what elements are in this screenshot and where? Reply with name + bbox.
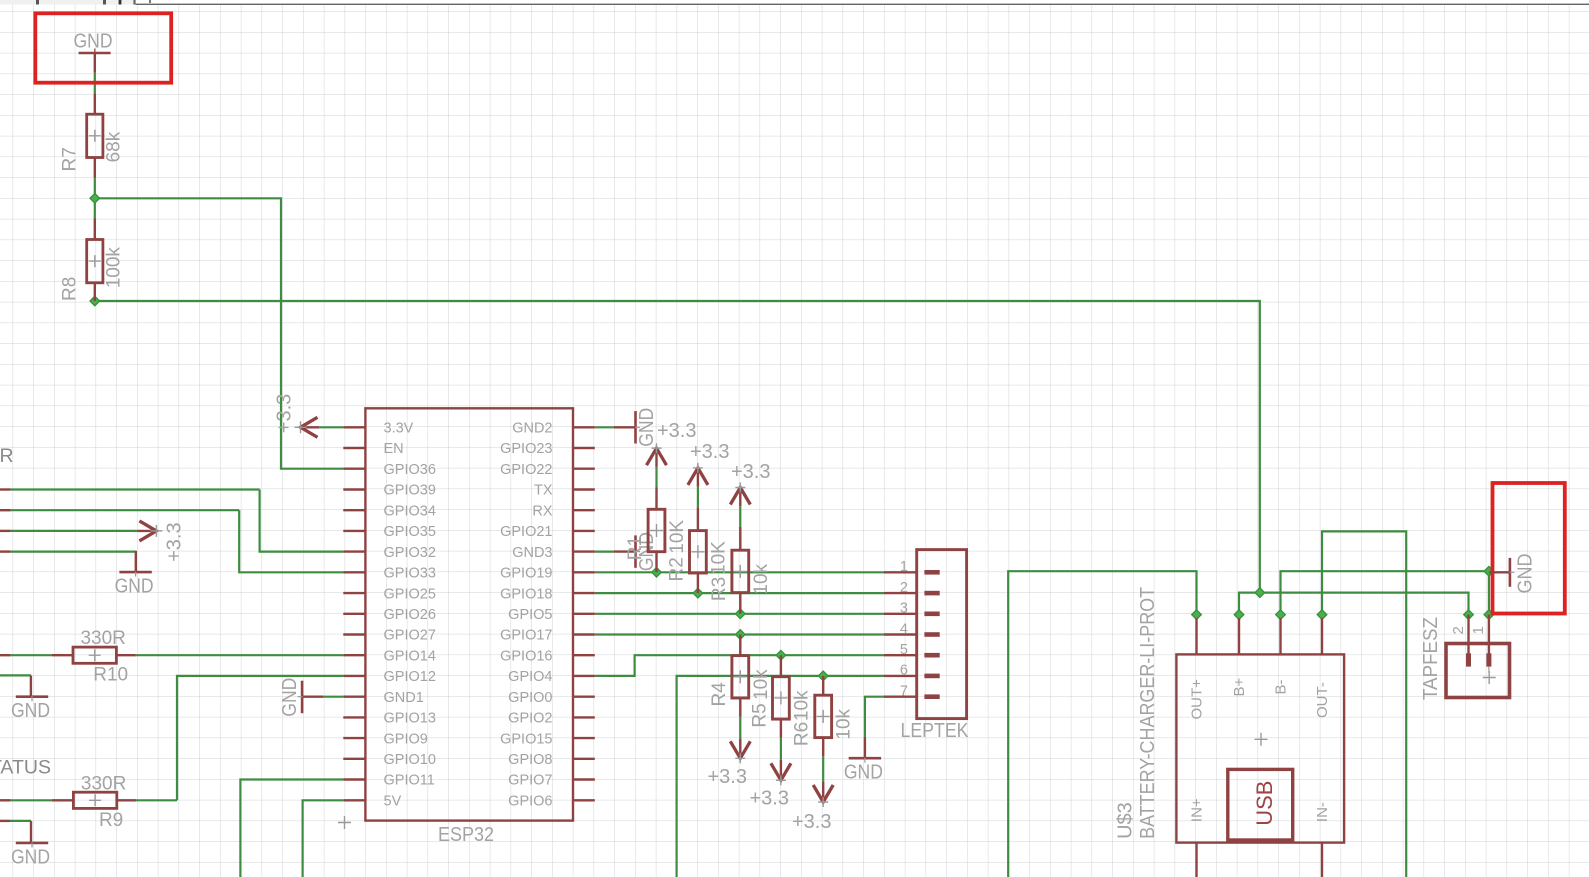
svg-text:OUT+: OUT+ — [1189, 679, 1206, 720]
svg-text:ER: ER — [0, 445, 14, 467]
svg-text:GPIO35: GPIO35 — [384, 524, 436, 540]
svg-text:3: 3 — [900, 601, 908, 617]
svg-text:TX: TX — [534, 483, 553, 499]
svg-text:330R: 330R — [80, 628, 125, 649]
svg-text:1: 1 — [900, 559, 908, 575]
svg-text:330R: 330R — [81, 773, 126, 794]
svg-text:TATUS: TATUS — [0, 756, 51, 778]
svg-text:GPIO27: GPIO27 — [384, 628, 436, 644]
svg-text:EN: EN — [384, 441, 404, 457]
svg-text:GPIO8: GPIO8 — [508, 752, 552, 768]
svg-text:GPIO32: GPIO32 — [384, 545, 436, 561]
svg-text:GPIO21: GPIO21 — [500, 524, 552, 540]
svg-text:IN-: IN- — [1314, 802, 1331, 822]
svg-text:GPIO9: GPIO9 — [384, 731, 428, 747]
svg-text:R3: R3 — [709, 577, 730, 601]
svg-text:GPIO6: GPIO6 — [508, 794, 552, 810]
svg-text:GPIO23: GPIO23 — [500, 441, 552, 457]
svg-text:OUT-: OUT- — [1314, 682, 1331, 718]
svg-text:GPIO25: GPIO25 — [384, 586, 436, 602]
svg-text:IN+: IN+ — [1189, 798, 1206, 822]
svg-text:R9: R9 — [99, 810, 123, 831]
svg-text:U$3: U$3 — [1115, 802, 1137, 839]
svg-text:100k: 100k — [104, 247, 125, 289]
svg-text:+3.3: +3.3 — [792, 811, 831, 833]
svg-text:GPIO36: GPIO36 — [384, 462, 436, 478]
svg-text:B+: B+ — [1231, 677, 1248, 696]
svg-text:10k: 10k — [834, 708, 855, 739]
svg-text:GPIO13: GPIO13 — [384, 711, 436, 727]
svg-text:GPIO0: GPIO0 — [508, 690, 552, 706]
svg-text:GPIO19: GPIO19 — [500, 566, 552, 582]
svg-text:BATTERY-CHARGER-LI-PROT: BATTERY-CHARGER-LI-PROT — [1137, 587, 1159, 839]
svg-text:GND: GND — [11, 700, 50, 722]
svg-text:2: 2 — [900, 580, 908, 596]
svg-text:TAPFESZ: TAPFESZ — [1420, 617, 1442, 700]
svg-text:GPIO11: GPIO11 — [384, 773, 435, 789]
svg-text:+3.3: +3.3 — [750, 788, 789, 810]
svg-text:USB: USB — [1252, 781, 1277, 826]
svg-text:RX: RX — [532, 503, 552, 519]
svg-text:GND: GND — [844, 762, 883, 784]
svg-text:5: 5 — [900, 642, 908, 658]
svg-text:1: 1 — [1470, 626, 1487, 634]
svg-text:GPIO15: GPIO15 — [500, 731, 552, 747]
svg-text:GPIO22: GPIO22 — [500, 462, 552, 478]
svg-text:GND: GND — [74, 31, 113, 53]
svg-text:GPIO33: GPIO33 — [384, 566, 436, 582]
svg-text:R10: R10 — [93, 665, 128, 686]
svg-text:10K: 10K — [708, 541, 729, 575]
svg-text:GND3: GND3 — [512, 545, 552, 561]
svg-text:R2: R2 — [666, 557, 687, 581]
svg-text:GPIO4: GPIO4 — [508, 669, 552, 685]
svg-text:GPIO16: GPIO16 — [500, 648, 552, 664]
svg-text:GND: GND — [279, 678, 301, 717]
svg-text:GPIO18: GPIO18 — [500, 586, 552, 602]
svg-text:GND: GND — [1515, 554, 1537, 594]
svg-text:+3.3: +3.3 — [274, 394, 296, 433]
svg-text:R4: R4 — [709, 682, 730, 707]
svg-text:+3.3: +3.3 — [731, 461, 770, 483]
svg-text:R6: R6 — [792, 722, 813, 746]
svg-text:GPIO14: GPIO14 — [384, 648, 436, 664]
svg-text:GND1: GND1 — [384, 690, 424, 706]
svg-text:R7: R7 — [60, 147, 81, 171]
svg-text:3.3V: 3.3V — [384, 421, 414, 437]
svg-text:7: 7 — [900, 684, 908, 700]
svg-text:B-: B- — [1272, 679, 1289, 694]
svg-text:R8: R8 — [60, 277, 81, 301]
svg-text:GPIO34: GPIO34 — [384, 503, 436, 519]
svg-text:10k: 10k — [791, 690, 812, 721]
svg-text:+3.3: +3.3 — [690, 441, 729, 463]
svg-text:GPIO5: GPIO5 — [508, 607, 552, 623]
svg-text:GPIO7: GPIO7 — [508, 773, 552, 789]
svg-text:2: 2 — [1450, 626, 1467, 634]
svg-text:+3.3: +3.3 — [708, 766, 747, 788]
svg-text:GPIO10: GPIO10 — [384, 752, 436, 768]
svg-text:R1: R1 — [625, 536, 646, 560]
svg-text:GPIO39: GPIO39 — [384, 483, 436, 499]
svg-text:10k: 10k — [751, 669, 772, 700]
svg-text:10k: 10k — [751, 563, 772, 594]
svg-text:LEPTEK: LEPTEK — [901, 720, 970, 742]
svg-text:GPIO17: GPIO17 — [500, 628, 552, 644]
svg-text:+3.3: +3.3 — [657, 420, 696, 442]
svg-text:GND: GND — [636, 408, 658, 447]
svg-text:GND2: GND2 — [512, 421, 552, 437]
svg-text:GPIO2: GPIO2 — [508, 711, 552, 727]
svg-text:+3.3: +3.3 — [164, 522, 186, 561]
svg-text:68k: 68k — [104, 131, 125, 162]
svg-text:10K: 10K — [667, 520, 688, 554]
svg-text:GND: GND — [11, 846, 50, 868]
svg-text:R5: R5 — [749, 703, 770, 727]
svg-text:5V: 5V — [384, 794, 402, 810]
svg-text:4: 4 — [900, 621, 908, 637]
svg-text:ESP32: ESP32 — [438, 824, 494, 846]
svg-text:GND: GND — [115, 576, 154, 598]
svg-text:GPIO26: GPIO26 — [384, 607, 436, 623]
svg-text:6: 6 — [900, 663, 908, 679]
svg-text:GPIO12: GPIO12 — [384, 669, 436, 685]
